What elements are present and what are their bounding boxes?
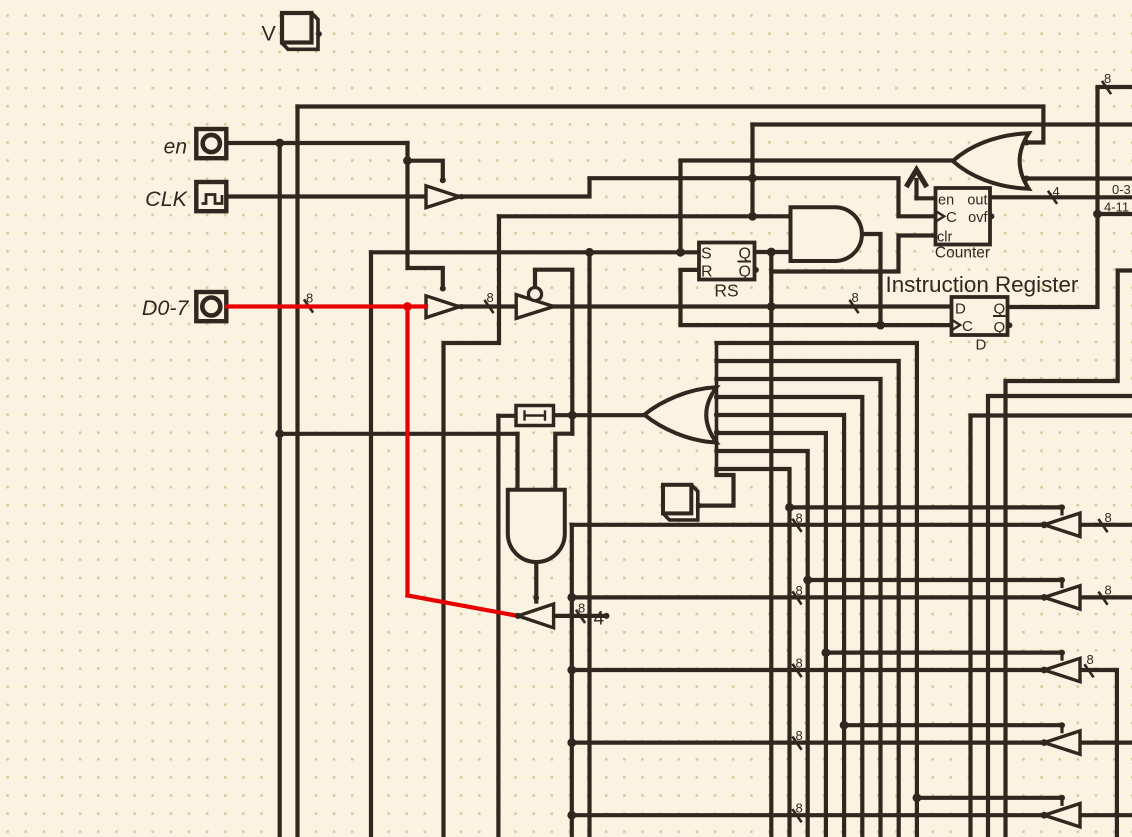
- bus width 8 before IR: [849, 300, 858, 313]
- bus width 8 row3 input: [1084, 664, 1093, 677]
- pin buffer1 output: [459, 194, 464, 199]
- pin buffer row4 output tip: [1041, 739, 1048, 746]
- wire R input loop to C row: [681, 270, 952, 325]
- svg-text:RS: RS: [714, 281, 738, 301]
- wire en column x279 down: [278, 143, 282, 837]
- wire power to counter en: [914, 196, 918, 200]
- wire OR2 input 2 to decode vertical: [717, 361, 899, 837]
- wire enable row5 stub: [1060, 798, 1063, 805]
- wire OR2 input 3 to decode vertical: [717, 379, 881, 837]
- pin OR1 input bottom: [1024, 176, 1030, 182]
- wire enable row3: [826, 650, 1062, 654]
- wire buffer1 output to counter C: [460, 178, 936, 216]
- buffer U2 D0-7 controlled buffer: [426, 296, 460, 318]
- buffer B2 left-facing: [1044, 586, 1080, 609]
- svg-text:S: S: [701, 246, 712, 263]
- bus width 8 row5: [792, 809, 801, 822]
- buffer B4 left-facing: [1044, 731, 1080, 754]
- junction enable row2 tap: [803, 576, 812, 585]
- wire S row: [371, 250, 699, 254]
- wire row3 input turns down to bottom: [1080, 670, 1117, 837]
- junction IR Q 4-11 tap: [1093, 210, 1102, 219]
- junction enable row3 tap: [822, 648, 831, 657]
- pin OR2 input mid1: [714, 394, 720, 400]
- wire OR2 input 8 to decode vertical: [717, 469, 790, 837]
- wire red vertical x407: [405, 307, 409, 596]
- svg-text:en: en: [938, 193, 954, 209]
- wire D0-7 pin to buffer2 (red): [227, 304, 426, 308]
- bus width 8 after buffer2: [484, 300, 493, 313]
- svg-text:Instruction Register: Instruction Register: [886, 272, 1079, 297]
- svg-text:8: 8: [1087, 652, 1094, 667]
- wire OR1 output to S: [681, 161, 954, 253]
- wire en to buffer1 enable: [408, 143, 443, 288]
- svg-text:R: R: [701, 263, 713, 280]
- pin enable row5 buffer: [1059, 795, 1065, 801]
- svg-text:CLK: CLK: [145, 187, 188, 211]
- pin buffer row1 output tip: [1041, 521, 1048, 528]
- wire H-box right to OR2 output: [554, 413, 645, 417]
- junction enable row5 tap: [913, 793, 922, 802]
- wire row4 input from right edge: [1080, 740, 1132, 744]
- wire OR2 input 6 to decode vertical: [717, 433, 826, 837]
- wire enable row1 stub: [1060, 507, 1063, 514]
- wire row2 input from right edge: [1080, 595, 1132, 599]
- pin OR2 input mid2: [714, 412, 720, 418]
- svg-text:D: D: [955, 300, 966, 317]
- svg-text:8: 8: [796, 728, 803, 743]
- wire buffer2 output to tristate: [460, 304, 517, 308]
- wire row1 input from right edge: [1080, 523, 1132, 527]
- pin OR2 input mid3: [714, 429, 720, 435]
- D flip-flop U10 box: [952, 297, 1008, 335]
- pin bufferL output tip: [515, 613, 521, 619]
- wire S net column x589 down: [587, 252, 591, 837]
- input pin CLK: [196, 182, 226, 211]
- bus width 8 row2: [792, 591, 801, 604]
- junction tristate-enable at H-box: [568, 411, 577, 420]
- junction en at y160: [403, 156, 412, 165]
- svg-text:clr: clr: [937, 229, 952, 245]
- wire row5 input from right edge: [1080, 813, 1132, 817]
- wire bufferL input stub: [554, 614, 607, 618]
- svg-text:4: 4: [594, 609, 605, 630]
- junction Q output: [767, 248, 776, 257]
- wire column x498 down: [496, 416, 500, 837]
- wire enable row2 stub: [1060, 580, 1063, 587]
- component H-box extender: [516, 406, 554, 426]
- wire en branch y433 to AND leg: [280, 432, 518, 436]
- pin bufferL input end: [604, 613, 610, 619]
- svg-text:Q: Q: [739, 263, 751, 280]
- pin counter ovf output: [989, 213, 995, 219]
- pin buffer row2 output tip: [1041, 594, 1048, 601]
- wire bus row3 from spine: [572, 668, 1044, 672]
- wire Q net to counter clr: [771, 236, 935, 272]
- wire enable row1: [790, 505, 1063, 509]
- subcircuit box V: [282, 13, 312, 43]
- svg-text:en: en: [164, 136, 187, 159]
- wire tristate output to IR D input: [554, 304, 952, 308]
- wire y216 net down x499 jog to x443: [444, 216, 500, 837]
- wire net C loop from right edge: [1006, 271, 1132, 837]
- wire bus row4 from spine: [572, 740, 1044, 744]
- pin RS Qbar output: [753, 267, 759, 273]
- wire OR1 bottom input from right edge: [1027, 176, 1132, 180]
- counter clock notch: [936, 211, 945, 222]
- buffer U1 CLK controlled buffer: [426, 186, 460, 208]
- bus width 8 row1: [792, 519, 801, 532]
- wire Q output to AND input2: [755, 250, 791, 254]
- bus width 8 top right: [1102, 81, 1111, 94]
- svg-text:ovf: ovf: [968, 210, 988, 226]
- svg-text:8: 8: [306, 291, 313, 306]
- wire OR2 input 5 to decode vertical: [717, 415, 845, 837]
- pin IR Qbar output: [1007, 322, 1013, 328]
- OR gate U7 body: [644, 387, 716, 442]
- power symbol: [906, 170, 927, 187]
- junction C row AND output: [876, 321, 885, 330]
- wire CLK branch y124 to right edge: [753, 122, 1132, 126]
- svg-text:8: 8: [578, 601, 585, 616]
- input pin D0-7: [196, 292, 226, 321]
- wire counter out to right edge: [990, 195, 1132, 199]
- wire enable row5: [917, 796, 1062, 800]
- pin buffer row3 output tip: [1041, 667, 1048, 674]
- svg-text:Q: Q: [739, 246, 751, 263]
- svg-text:8: 8: [487, 290, 494, 305]
- svg-text:8: 8: [1105, 582, 1112, 597]
- wire S column x371 down: [369, 252, 373, 837]
- pin buffer2 enable: [440, 286, 446, 292]
- svg-text:8: 8: [1104, 71, 1111, 86]
- svg-text:4-11: 4-11: [1104, 200, 1129, 215]
- svg-text:D: D: [976, 337, 987, 354]
- wire box2 output to OR2 column: [698, 469, 734, 506]
- wire bus spine x571: [570, 525, 574, 837]
- wire Q net down decode column x771: [769, 272, 773, 837]
- wire top net from x297 to OR1 top input: [298, 107, 1044, 143]
- svg-text:0-3: 0-3: [1112, 182, 1131, 197]
- wire OR2 input 4 to decode vertical: [717, 397, 863, 837]
- bus width 8 at D0-7 pin: [304, 299, 313, 312]
- wire 4-11 to right edge: [1098, 212, 1132, 216]
- svg-text:D0-7: D0-7: [142, 296, 190, 320]
- junction enable row4 tap: [840, 721, 849, 730]
- wire AND-v left input leg: [515, 434, 519, 490]
- wire y216 branch to AND input1: [499, 214, 791, 218]
- pin bufferL enable: [533, 595, 539, 601]
- AND gate U4: [791, 207, 862, 261]
- wire tristate enable loop: [535, 270, 572, 434]
- wire bus row2 from spine: [572, 595, 1044, 599]
- svg-text:Counter: Counter: [935, 244, 990, 261]
- AND gate U5 vertical: [508, 490, 565, 562]
- wire power arrow stem to en: [917, 180, 936, 198]
- svg-text:out: out: [967, 193, 987, 209]
- junction S row x589: [585, 248, 594, 257]
- bus width 8 row1 input: [1098, 519, 1107, 532]
- wire enable row2: [808, 578, 1062, 582]
- wire en pin to corner: [227, 141, 408, 145]
- RS latch U8 box: [699, 243, 755, 280]
- wire vertical x297 column to bottom: [295, 107, 299, 837]
- wire net B corner to right edge: [988, 396, 1132, 837]
- pin bufferL output tip black: [515, 613, 521, 619]
- svg-text:8: 8: [796, 583, 803, 598]
- svg-text:4: 4: [1053, 184, 1060, 199]
- junction en at x279: [275, 139, 284, 148]
- wire IR Q up to top: [1008, 87, 1132, 307]
- junction bus spine row5: [567, 811, 576, 820]
- svg-text:Q: Q: [994, 319, 1006, 336]
- wire bus row1 from spine corner: [572, 523, 1044, 527]
- pin enable row3 buffer: [1059, 650, 1065, 656]
- svg-text:8: 8: [796, 510, 803, 525]
- buffer B1 left-facing: [1044, 513, 1080, 536]
- junction D-row to decode column: [767, 302, 776, 311]
- buffer U3 inverted-enable buffer: [516, 295, 554, 319]
- IR Q underline: [993, 315, 1006, 317]
- wire AND-v output to bufferL enable: [534, 562, 538, 602]
- svg-text:8: 8: [796, 801, 803, 816]
- wire enable row4: [844, 723, 1062, 727]
- junction S row x680: [676, 248, 685, 257]
- wire AND-v right input leg: [555, 434, 572, 490]
- junction CLKnet y178: [748, 174, 757, 183]
- svg-text:8: 8: [1105, 510, 1112, 525]
- OR gate U6 left-facing: [953, 133, 1029, 189]
- wire AND output to C row: [862, 234, 881, 325]
- wire en to buffer1 enable stub: [408, 161, 443, 180]
- svg-text:8: 8: [796, 656, 803, 671]
- pin enable row2 buffer: [1059, 577, 1065, 583]
- wire enable row4 stub: [1060, 725, 1063, 732]
- wire OR2 input 7 to decode vertical: [717, 451, 808, 837]
- wire vertical x752 CLK branch: [750, 125, 754, 217]
- wire OR2 input 1 to decode vertical: [717, 343, 917, 837]
- svg-text:V: V: [262, 22, 277, 46]
- pin buffer1 enable: [440, 177, 446, 183]
- buffer B5 left-facing: [1044, 804, 1080, 827]
- OR gate U7 multi-input wing line: [715, 343, 719, 470]
- junction CLKnet y216: [748, 212, 757, 221]
- wire H-box left to column x498: [498, 414, 516, 418]
- junction en at y433: [275, 429, 284, 438]
- buffer BL left-facing: [518, 604, 554, 628]
- junction enable row1 tap: [785, 503, 794, 512]
- pin OR1 input top: [1024, 140, 1030, 146]
- counter U9 box: [936, 188, 991, 245]
- buffer B3 left-facing: [1044, 658, 1080, 681]
- wire red diagonal to bufferL: [408, 596, 519, 616]
- pin buffer row5 output tip: [1041, 812, 1048, 819]
- input pin en: [196, 129, 226, 158]
- RS Q underline: [738, 261, 752, 263]
- svg-text:Q: Q: [994, 300, 1006, 317]
- junction bus spine row3: [567, 666, 576, 675]
- svg-text:8: 8: [852, 290, 859, 305]
- pin buffer2 output: [459, 304, 464, 309]
- svg-text:C: C: [946, 209, 957, 226]
- pin enable row1 buffer: [1059, 504, 1065, 510]
- wire CLK pin to buffer1: [227, 194, 426, 198]
- bus width 8 row3: [792, 664, 801, 677]
- bus width 8 bufferL: [576, 610, 585, 623]
- wire net A corner to right edge: [971, 416, 1132, 837]
- junction red at buffer2 input: [403, 302, 412, 311]
- bus width 8 row2 input: [1098, 592, 1107, 605]
- bus width 4 counter out: [1048, 191, 1057, 204]
- junction bus spine row2: [567, 593, 576, 602]
- junction bus spine row4: [567, 738, 576, 747]
- IR clock notch: [952, 320, 961, 331]
- svg-text:C: C: [962, 318, 973, 335]
- pin enable row4 buffer: [1059, 722, 1065, 728]
- wire enable row3 stub: [1060, 653, 1063, 660]
- subcircuit box 2: [663, 485, 691, 514]
- bus width 8 row4: [792, 737, 801, 750]
- wire bus row5 from spine: [572, 813, 1044, 817]
